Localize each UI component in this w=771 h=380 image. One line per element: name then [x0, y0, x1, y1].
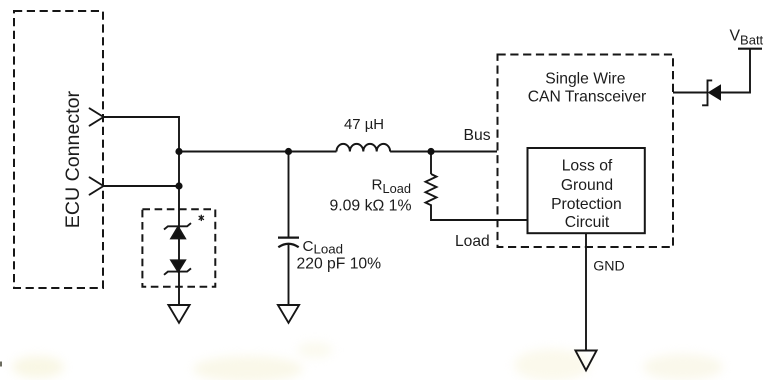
svg-text:CLoad: CLoad [303, 238, 344, 256]
svg-text:GND: GND [593, 259, 625, 275]
svg-text:ECU Connector: ECU Connector [62, 91, 84, 229]
svg-text:VBatt: VBatt [730, 27, 764, 47]
svg-text:Single Wire: Single Wire [545, 70, 625, 87]
svg-text:Protection: Protection [551, 196, 622, 213]
svg-text:CAN Transceiver: CAN Transceiver [528, 88, 647, 105]
svg-text:Bus: Bus [464, 127, 491, 144]
svg-text:9.09 kΩ 1%: 9.09 kΩ 1% [329, 197, 411, 214]
svg-text:RLoad: RLoad [372, 176, 411, 195]
svg-text:Ground: Ground [561, 177, 613, 194]
svg-text:Loss of: Loss of [562, 158, 613, 175]
svg-text:Circuit: Circuit [565, 214, 610, 231]
svg-text:47 µH: 47 µH [344, 117, 384, 133]
svg-text:Load: Load [455, 233, 490, 250]
svg-text:220 pF 10%: 220 pF 10% [297, 256, 382, 273]
